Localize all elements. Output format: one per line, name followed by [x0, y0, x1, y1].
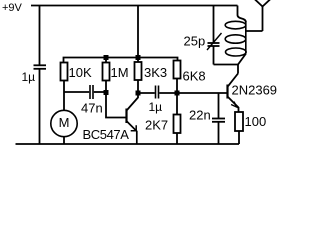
inductor L1 right side link	[245, 21, 247, 53]
wire trimmer to coil bottom	[214, 64, 239, 66]
svg-text:25p: 25p	[184, 34, 206, 49]
antenna vertical	[262, 6, 264, 31]
wire Q2 emitter to 100 resistor	[238, 107, 240, 112]
wire 100 bottom lead	[238, 131, 240, 144]
transistor Q1 BC547A base bar	[125, 109, 127, 124]
node dot bus-1M	[104, 55, 109, 60]
svg-text:1µ: 1µ	[22, 70, 36, 84]
svg-text:M: M	[59, 115, 70, 130]
trimmer capacitor C5 25p plates	[208, 42, 220, 44]
node dot 3K3-collector	[136, 91, 141, 96]
svg-text:BC547A: BC547A	[83, 127, 130, 142]
resistor R2 1M	[103, 63, 110, 81]
node dot bus-3K3	[136, 55, 141, 60]
wire 22n top lead	[218, 93, 220, 118]
wire dot down to BC547A base	[106, 93, 126, 118]
wire 47n right segment	[94, 91, 106, 93]
resistor R5 2K7	[174, 115, 181, 134]
wire trimmer bottom lead	[213, 46, 215, 65]
svg-text:6K8: 6K8	[183, 69, 206, 84]
svg-text:1M: 1M	[111, 65, 129, 80]
wire 1M bottom lead	[105, 81, 107, 93]
wire 22n bottom lead	[218, 122, 220, 144]
capacitor C1 1u plates	[34, 64, 47, 66]
svg-text:2K7: 2K7	[145, 118, 168, 133]
wire top rail +9V	[31, 5, 238, 7]
antenna V right arm	[263, 0, 271, 7]
inductor L1 top lead curve	[238, 6, 246, 23]
wire left rail from top	[39, 6, 41, 65]
antenna tap wire	[246, 30, 263, 32]
transistor Q1 collector	[127, 93, 138, 110]
transistor Q2 emitter arrowhead	[231, 102, 236, 107]
wire bottom rail	[16, 143, 240, 145]
svg-text:47n: 47n	[81, 101, 103, 116]
inductor L1 loop 1	[225, 21, 246, 29]
antenna V left arm	[255, 0, 263, 7]
wire mid bus left of 1u cap	[138, 92, 155, 94]
wire coil bottom to collector	[237, 65, 239, 74]
transistor Q2 2N2369 base bar	[226, 85, 228, 99]
svg-text:22n: 22n	[189, 108, 211, 123]
svg-text:10K: 10K	[69, 65, 92, 80]
svg-text:3K3: 3K3	[144, 65, 167, 80]
wire coil bottom diagonal	[238, 54, 246, 65]
motor M1 circle	[51, 110, 77, 136]
wire 10K bottom to motor top	[63, 81, 65, 111]
inductor L1 loop 2	[225, 35, 246, 43]
inductor L1 loop 3	[226, 48, 247, 56]
wire 6K8 bottom lead	[176, 79, 178, 94]
wire 47n left segment	[64, 91, 89, 93]
svg-text:1µ: 1µ	[149, 100, 163, 114]
resistor R3 3K3	[135, 62, 142, 80]
wire 2K7 top lead	[176, 93, 178, 115]
trimmer capacitor C5 adjust arrow	[207, 33, 222, 50]
wire 1M top lead	[105, 58, 107, 63]
capacitor C3 1u plates	[155, 86, 157, 99]
transistor Q1 emitter arrowhead	[131, 125, 137, 131]
wire motor bottom lead	[63, 137, 65, 144]
resistor R4 6K8	[174, 61, 181, 79]
resistor R6 100	[235, 112, 243, 131]
capacitor C2 47n plates	[89, 85, 91, 99]
node dot 1M-47n-base	[104, 90, 109, 95]
trimmer top lead	[213, 6, 215, 44]
resistor R1 10K	[61, 63, 68, 81]
svg-text:+9V: +9V	[2, 2, 23, 14]
node dot 6K8-2K7	[175, 91, 180, 96]
transistor Q2 collector	[228, 74, 238, 87]
transistor Q2 emitter	[228, 97, 239, 108]
wire 2K7 bottom lead	[176, 133, 178, 144]
wire mid bus to 2N2369 base	[159, 92, 226, 94]
svg-text:2N2369: 2N2369	[232, 83, 278, 98]
wire left rail below cap	[39, 69, 41, 144]
wire 3K3 bottom lead	[137, 80, 139, 93]
svg-text:100: 100	[245, 114, 267, 129]
wire mid supply bus	[64, 58, 178, 63]
transistor Q1 emitter	[127, 122, 137, 145]
capacitor C4 22n plates	[212, 118, 225, 120]
wire from top rail down to 3K3	[137, 6, 139, 63]
